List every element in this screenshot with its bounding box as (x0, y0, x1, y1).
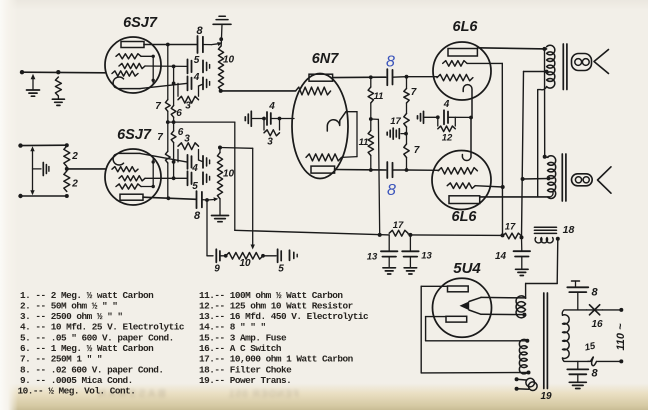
wire plate1 left (421, 285, 447, 287)
wire J2 bottom (21, 195, 67, 197)
svg-text:4. -- 10 Mfd. 25 V. Electrolyt: 4. -- 10 Mfd. 25 V. Electrolytic (20, 322, 185, 333)
tube V5 6L6 envelope (432, 151, 491, 210)
svg-text:4: 4 (193, 72, 200, 83)
screen grid V5 (447, 183, 475, 189)
ground below C13 left (383, 268, 396, 274)
capacitor C4 (stage2 cathode bypass) (188, 155, 192, 169)
node C8 ch2 output (202, 198, 209, 202)
control grid V1 (112, 71, 138, 76)
capacitor C14 (514, 237, 531, 268)
label 12 6L6 (442, 133, 453, 144)
filament bottom arm (469, 310, 526, 317)
svg-text:7: 7 (411, 87, 417, 98)
resistor R7 (6L6b grid) (404, 144, 409, 170)
label 3 stage1 (185, 101, 191, 112)
cathode hook V5 (462, 118, 471, 161)
svg-text:8: 8 (591, 368, 598, 380)
high voltage winding (519, 339, 527, 374)
svg-text:7. -- 250M 1 " ": 7. -- 250M 1 " " (20, 354, 102, 365)
wire V1 screen to node (145, 65, 187, 69)
node input jack J2 top (18, 143, 22, 147)
resistor R6 (stage2 screen) (171, 131, 176, 143)
label 2 lower (71, 179, 78, 190)
cap C5 stage2 outer foil marks (203, 172, 210, 184)
label 8 blue bottom (387, 182, 396, 199)
wiper arrow into R10 ch2 (207, 197, 218, 201)
legend parts list left column (18, 290, 185, 397)
label 8 for C8 ch2 (194, 210, 201, 222)
svg-text:5: 5 (278, 264, 284, 275)
svg-text:6SJ7: 6SJ7 (123, 15, 158, 31)
node R1 tap ch2 (65, 167, 69, 171)
label 14 (495, 251, 507, 262)
plate of V5 (449, 196, 480, 204)
wire screen rail vertical (501, 63, 503, 235)
tube V1 6SJ7 envelope (105, 37, 161, 93)
resistor R1a (input divider ch2 upper) (64, 146, 70, 167)
wire V3 plate2 to C8b (335, 168, 386, 172)
fuse F15 (588, 357, 597, 366)
label 3 stage2 (184, 134, 190, 145)
wire J2 top (21, 144, 67, 146)
cathode wire V2 to C4 (140, 153, 187, 163)
wire tone wiper vertical (251, 148, 255, 249)
node R11 mid (369, 103, 373, 121)
speaker 1 horn (594, 50, 609, 74)
svg-text:8: 8 (196, 25, 203, 37)
node input jack J1 (channel 1) (20, 70, 24, 74)
cathode hook V3 (327, 112, 346, 131)
wire R11 mid jog (371, 118, 379, 120)
label V6 5U4 (453, 260, 481, 277)
svg-text:15: 15 (584, 340, 597, 353)
node input jack J2 bottom (18, 194, 22, 198)
label 19 (540, 391, 552, 402)
ground below C13 right (404, 268, 417, 274)
capacitor C5 (stage1) (188, 59, 192, 73)
svg-text:7: 7 (414, 145, 420, 156)
svg-text:16: 16 (591, 319, 603, 330)
label 9 tone (214, 264, 220, 275)
plate of V4 (448, 49, 477, 57)
filament arrow V6 (460, 301, 470, 310)
switch S16 (AC) (587, 305, 603, 315)
resistor R7 (6L6a grid) (404, 77, 409, 103)
svg-text:2: 2 (71, 151, 78, 162)
svg-text:13.-- 16 Mfd. 450 V. Electroly: 13.-- 16 Mfd. 450 V. Electrolytic (199, 311, 369, 322)
tube V4 6L6 envelope (433, 42, 491, 100)
wire J1 to V1 grid (22, 71, 105, 74)
svg-text:10.-- ½ Meg. Vol. Cont.: 10.-- ½ Meg. Vol. Cont. (18, 386, 136, 397)
ground below C14 (516, 269, 529, 275)
wire V4 plate to OT1 (477, 47, 546, 51)
svg-text:7: 7 (155, 101, 161, 112)
plate of V2 (120, 194, 143, 200)
control grid V4 (437, 74, 473, 80)
label 110V AC (615, 323, 627, 351)
label 8 for C8 ch1 (196, 25, 203, 37)
wire B+ feed down to rail (234, 122, 236, 230)
label 8 line top (591, 287, 598, 299)
ground for bias cap (387, 128, 393, 139)
label 17 B+ (393, 220, 404, 231)
svg-text:19: 19 (540, 391, 552, 402)
svg-text:6. -- 1 Meg. ½ Watt Carbon: 6. -- 1 Meg. ½ Watt Carbon (20, 343, 154, 354)
resistor R17 (B+ dropping) (389, 230, 408, 236)
svg-text:110 ~: 110 ~ (615, 323, 627, 351)
svg-text:9. -- .0005 Mica Cond.: 9. -- .0005 Mica Cond. (20, 375, 133, 386)
heater winding (515, 377, 538, 390)
svg-text:2. -- 50M ohm ½ " ": 2. -- 50M ohm ½ " " (20, 301, 117, 312)
wire plate2 loop to HV top (426, 317, 530, 343)
tube V3 6N7 envelope (292, 74, 348, 179)
grid 1 of V3 (296, 87, 331, 95)
OT1 core (563, 44, 567, 90)
svg-text:3: 3 (267, 137, 273, 148)
wire primary bottom lead (563, 358, 589, 361)
screen grid V4 (443, 61, 467, 67)
wire screen node down (vertical B top) (173, 66, 175, 105)
node R10 ch2 top (218, 146, 222, 150)
wire plate1 loop to HV bottom (421, 286, 530, 374)
svg-text:18.-- Filter Choke: 18.-- Filter Choke (199, 365, 292, 376)
capacitor C8 (push-pull bottom, blue) (387, 162, 392, 178)
svg-text:14.-- 8 " " ": 14.-- 8 " " " (199, 322, 266, 333)
ground below line cap (569, 382, 586, 388)
svg-text:11: 11 (374, 91, 384, 102)
wire vertical B bottom to V2 screen node (173, 143, 175, 179)
svg-text:4: 4 (443, 99, 450, 110)
capacitor bias bypass (396, 129, 406, 139)
capacitor C8 (ch1 coupling) (198, 36, 212, 53)
svg-text:3: 3 (185, 101, 191, 112)
wire vertical A middle (166, 111, 170, 151)
capacitor C13 right (402, 235, 419, 267)
wire C8a to 6L6a grid (393, 75, 438, 79)
wire AC line top (603, 308, 624, 312)
wire R10 ch2 stub (219, 148, 221, 153)
capacitor C8 (ch2 coupling) (197, 191, 202, 208)
label 4 stage1 (193, 72, 200, 83)
label 10 volume ch1 (223, 55, 235, 66)
capacitor C8 line bottom (567, 361, 588, 381)
label V3 6N7 (312, 51, 340, 67)
suppressor-cathode tie V2 (141, 159, 155, 189)
svg-text:8. -- .02 600 V. paper Cond.: 8. -- .02 600 V. paper Cond. (20, 365, 164, 376)
suppressor grid V2 (116, 184, 141, 189)
label 4 stage2 (191, 163, 198, 174)
cathode hook V4 (463, 85, 472, 118)
capacitor input ch2 (33, 163, 49, 176)
wire R10 ch1 to V3 grid 1 (221, 90, 295, 92)
capacitor C4 (V3 cathode) (267, 112, 271, 125)
transformer OT2 primary (548, 156, 556, 199)
filter choke L18 winding (535, 238, 553, 243)
plate 2 of V6 (446, 316, 467, 322)
svg-text:12: 12 (442, 133, 453, 144)
OT2 core (562, 154, 566, 201)
label 7 6L6a (411, 87, 417, 98)
speaker 2 voice coil (572, 174, 593, 186)
svg-text:5U4: 5U4 (453, 260, 481, 277)
filament top arm (469, 297, 526, 301)
svg-text:9: 9 (214, 264, 220, 275)
label 6 stage1 (176, 108, 182, 119)
cap C4 stage2 outer foil marks (203, 156, 210, 168)
label 3 V3 (267, 137, 273, 148)
label 2 upper (71, 151, 78, 162)
wire C9 to R10 tone (220, 254, 228, 258)
node bias cap tap (404, 127, 408, 144)
svg-text:6L6: 6L6 (452, 209, 478, 225)
tube V2 6SJ7 envelope (105, 149, 161, 205)
control grid V5 (438, 168, 477, 174)
cap C4 outer foil marks (203, 77, 210, 89)
label 8 line bottom (591, 368, 598, 380)
label 17 screen feed (505, 222, 516, 233)
svg-text:4: 4 (268, 101, 275, 112)
screen grid V2 (119, 176, 145, 181)
svg-text:8: 8 (386, 54, 395, 71)
resistor R3 (V3 cathode) (264, 119, 280, 136)
wire V4 plate to OT2 primary (543, 49, 548, 159)
potentiometer R10 (volume ch1) (218, 46, 223, 91)
svg-text:5: 5 (192, 181, 198, 192)
label 13 left (367, 252, 378, 263)
node R10 tone right (261, 254, 265, 258)
wire vertical A bottom to V2 plate node (167, 163, 169, 199)
label 4 V3 (268, 101, 275, 112)
svg-text:13: 13 (367, 252, 378, 263)
svg-text:5. -- .05 " 600 V. paper Cond: 5. -- .05 " 600 V. paper Cond. (20, 333, 174, 344)
svg-text:11.-- 100M ohm ½ Watt Carbon: 11.-- 100M ohm ½ Watt Carbon (199, 290, 343, 301)
svg-text:2: 2 (71, 179, 78, 190)
wire V3 cathode-grid2 riser (342, 112, 358, 158)
label 8 blue top (386, 54, 395, 71)
wire R10 ch2 top to tone wiper (220, 147, 253, 150)
svg-text:11: 11 (359, 137, 369, 148)
svg-text:3: 3 (184, 134, 190, 145)
label 10 tone (239, 258, 251, 269)
wire main B+ rail (235, 230, 389, 237)
resistor R1b (input divider ch2 lower) (64, 171, 70, 192)
ground above volume pot R10 ch1 (213, 16, 231, 46)
wire OT1 bottom to V5 plate (538, 87, 547, 197)
label 10 volume ch2 (223, 169, 235, 180)
svg-text:3. -- 2500 ohm ½ " ": 3. -- 2500 ohm ½ " " (20, 311, 123, 322)
label 6 stage2 (178, 127, 184, 138)
wire plate2 left (426, 316, 446, 318)
ground for V3 cathode network (245, 111, 251, 126)
label 15 (584, 340, 597, 353)
potentiometer R10 (tone) (226, 253, 263, 260)
capacitor C9 (tone, .0005 mica) (216, 249, 220, 262)
primary winding (563, 315, 570, 359)
wire V2 screen to node (145, 176, 187, 180)
resistor R17 (bias ladder) (404, 103, 409, 127)
wire R1 tap to V2 grid (67, 168, 105, 170)
wire OT2 center tap (521, 177, 551, 181)
suppressor grid V1 (116, 54, 141, 59)
label 5 tone (278, 264, 284, 275)
svg-text:8: 8 (194, 210, 201, 222)
plate 2 of V3 (311, 166, 335, 173)
svg-text:6L6: 6L6 (453, 19, 479, 35)
node junction J1/R2 (56, 70, 60, 74)
node R1 top ch2 (65, 143, 69, 147)
svg-text:17: 17 (505, 222, 516, 233)
label 5 stage2 (192, 181, 198, 192)
wire V5 plate to OT2 (480, 192, 553, 197)
label V1 6SJ7 (123, 15, 158, 31)
svg-text:6: 6 (178, 127, 184, 138)
wire primary top lead (562, 310, 586, 315)
grid 2 of V3 (306, 154, 342, 161)
capacitor C8 line top (567, 281, 588, 310)
power transformer T19 core (544, 293, 548, 389)
ground below R2 (52, 96, 64, 105)
label 7 6L6b (414, 145, 420, 156)
svg-text:17.-- 10,000 ohm 1 Watt Carbon: 17.-- 10,000 ohm 1 Watt Carbon (199, 354, 354, 365)
screen grid V1 (119, 63, 145, 68)
legend parts list right column (199, 290, 369, 386)
label 13 right (421, 251, 432, 262)
tube V6 5U4 envelope (433, 278, 492, 337)
suppressor-cathode tie V1 (141, 55, 155, 84)
speaker 1 voice coil (572, 54, 592, 71)
wire OT1 center tap (524, 70, 549, 74)
plate 1 of V6 (448, 286, 469, 292)
ground for 6L6 cathode network (418, 111, 424, 123)
svg-text:19.-- Power Trans.: 19.-- Power Trans. (199, 375, 291, 386)
label 18 (563, 224, 575, 236)
svg-text:8: 8 (591, 287, 598, 299)
svg-text:5: 5 (194, 55, 200, 66)
svg-text:10: 10 (239, 258, 251, 269)
wire V4 screen to rail (467, 62, 502, 64)
label 17 ladder (390, 116, 401, 127)
wire C4 to cathode riser (448, 116, 473, 120)
node R10 ch1 bottom (219, 89, 223, 93)
wire V2 plate to C8 (143, 196, 196, 200)
svg-text:17: 17 (390, 116, 401, 127)
node choke output (556, 237, 560, 241)
ground below R10 ch2 (212, 199, 229, 222)
wire plate node down (vertical A top) (167, 45, 169, 100)
label 5 stage1 (194, 55, 200, 66)
svg-text:6SJ7: 6SJ7 (117, 127, 152, 143)
wire rail right segment (410, 233, 504, 237)
plate of V1 (121, 42, 144, 48)
wire ground to C4 V3 (253, 117, 266, 121)
wire vertical B middle (172, 117, 176, 131)
wire R10 tone to C5 (263, 255, 276, 257)
cap C5 outer foil marks (203, 60, 210, 72)
capacitor C4 (6L6 cathode) (444, 110, 448, 124)
wiper arrow into R10 ch1 (212, 42, 223, 46)
resistor R3 (stage1 cathode) (178, 83, 202, 103)
label V2 6SJ7 (117, 127, 152, 143)
resistor R7 (stage1 plate load) (165, 100, 170, 112)
capacitor C5 (tone) (278, 249, 282, 262)
cathode wire V1 to C4 (140, 82, 187, 89)
svg-text:10: 10 (223, 55, 235, 66)
resistor R17 (screen feed) (503, 233, 524, 239)
svg-text:16.-- A C Switch: 16.-- A C Switch (199, 343, 282, 354)
svg-text:14: 14 (495, 251, 507, 262)
label 11 upper (374, 91, 384, 102)
resistor R2 (50M grid leak ch1) (55, 77, 61, 96)
svg-text:8: 8 (387, 182, 396, 199)
resistor R12 (6L6 cathode) (438, 117, 456, 131)
control grid V2 (112, 167, 138, 172)
resistor R11 upper (368, 77, 373, 103)
wire C8b to 6L6b grid (393, 168, 440, 172)
resistor R6 (stage1 screen) (171, 106, 176, 118)
wire input divider arrows ch2 (30, 146, 34, 195)
wire B+ rail to OT center taps (522, 72, 524, 238)
resistor R11 lower (368, 119, 373, 170)
transformer OT1 primary (547, 45, 555, 88)
wire C8 ch2 down to tone (207, 200, 213, 256)
svg-text:18: 18 (563, 224, 575, 236)
label 7 stage2 (157, 132, 163, 143)
capacitor C13 left (381, 235, 398, 267)
resistor R7 (stage2 plate load) (165, 151, 170, 163)
wire choke to rectifier (526, 239, 558, 299)
label 7 stage1 (155, 101, 161, 112)
label 16 (591, 319, 603, 330)
filter choke L18 core (534, 227, 556, 233)
plate 1 of V3 (309, 74, 333, 81)
wire B+ feed bus (y=122) (168, 121, 235, 123)
wire V5 screen to rail (475, 185, 505, 189)
svg-text:10: 10 (223, 169, 235, 180)
node R1 bottom ch2 (65, 194, 69, 198)
wire AC line bottom (598, 359, 624, 363)
capacitor C5 (stage2) (188, 171, 192, 185)
cap C5 tone outer foil marks (290, 250, 298, 260)
capacitor C4 (stage1 cathode bypass) (188, 76, 192, 90)
label V5 6L6 (452, 209, 478, 225)
resistor R3 (stage2 cathode) (178, 143, 202, 162)
svg-text:13: 13 (421, 251, 432, 262)
svg-text:15.-- 3 Amp. Fuse: 15.-- 3 Amp. Fuse (199, 333, 287, 344)
ground arrow at input 1 (27, 74, 40, 96)
wire V1 plate to C8 (144, 43, 197, 47)
rectifier filament winding (516, 296, 526, 318)
node rail right of R17 (408, 233, 412, 237)
capacitor C8 (push-pull top, blue) (387, 69, 392, 85)
wire ground to C4 6L6 (424, 115, 440, 119)
svg-text:1. -- 2 Meg. ½ watt Carbon: 1. -- 2 Meg. ½ watt Carbon (20, 290, 154, 301)
wire C4 V3 to tube (271, 117, 294, 121)
svg-text:12.-- 125 ohm 10 Watt Resistor: 12.-- 125 ohm 10 Watt Resistor (199, 301, 353, 312)
cathode hook V2 (113, 153, 140, 165)
label 4 6L6 (443, 99, 450, 110)
potentiometer R10 (volume ch2) (217, 153, 222, 199)
wire V3 plate1 to C8a (333, 75, 386, 79)
svg-text:6N7: 6N7 (312, 51, 340, 67)
svg-text:7: 7 (157, 132, 163, 143)
label V4 6L6 (453, 19, 479, 35)
svg-text:17: 17 (393, 220, 404, 231)
svg-text:6: 6 (176, 108, 182, 119)
cathode hook V1 (113, 77, 140, 89)
label 11 lower (359, 137, 369, 148)
speaker 2 horn (598, 167, 612, 193)
wire grid bias riser to rail (378, 119, 379, 234)
